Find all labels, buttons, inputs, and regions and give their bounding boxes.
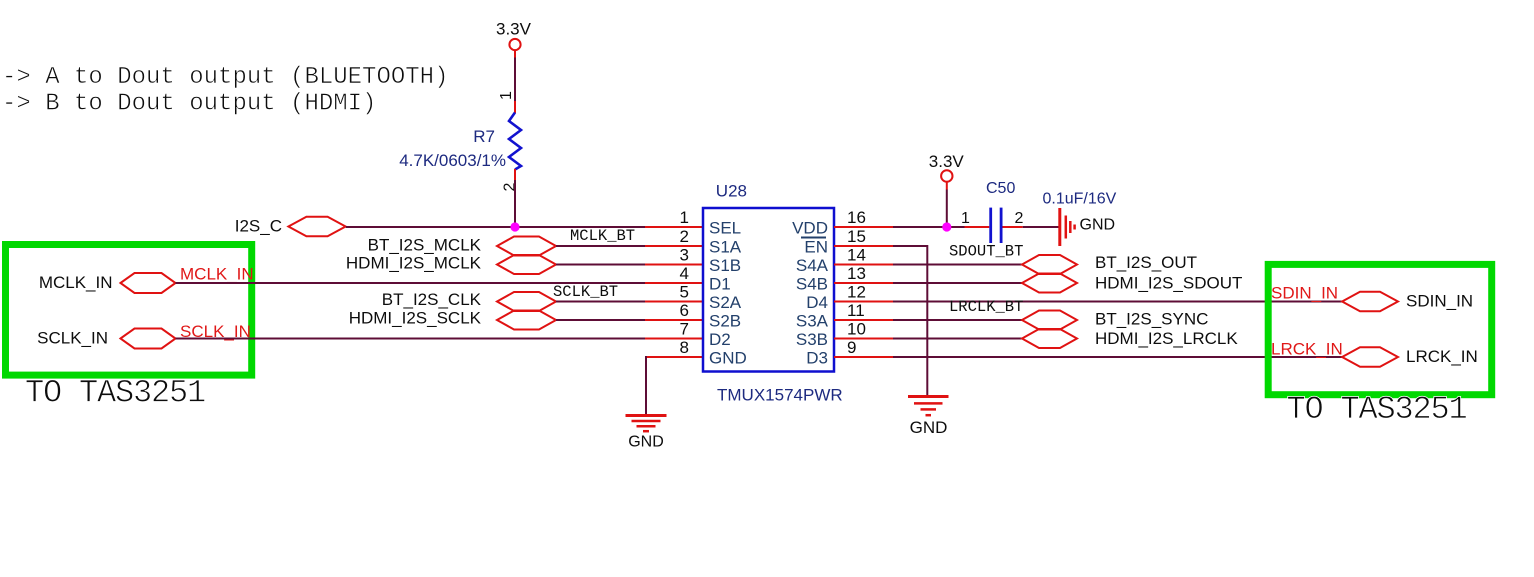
- svg-text:LRCK_IN: LRCK_IN: [1271, 340, 1343, 359]
- wire pin8 to ground: [645, 356, 647, 414]
- svg-text:SDIN_IN: SDIN_IN: [1406, 292, 1473, 311]
- svg-text:-> B to Dout output (HDMI): -> B to Dout output (HDMI): [2, 91, 376, 118]
- green highlight box (left, TO TAS3251): [6, 245, 252, 376]
- svg-text:R7: R7: [473, 127, 495, 146]
- svg-text:BT_I2S_SYNC: BT_I2S_SYNC: [1095, 310, 1208, 329]
- svg-text:2: 2: [680, 227, 689, 246]
- power symbol 3.3V (top, for R7): [496, 20, 532, 51]
- svg-text:GND: GND: [628, 434, 664, 451]
- pin stub U28 pin1: [645, 226, 703, 228]
- junction node at R7/I2S_C: [510, 222, 519, 231]
- svg-text:0.1uF/16V: 0.1uF/16V: [1043, 191, 1117, 208]
- svg-text:HDMI_I2S_SDOUT: HDMI_I2S_SDOUT: [1095, 274, 1242, 293]
- svg-text:SCLK_BT: SCLK_BT: [553, 283, 618, 301]
- wire R7 pin2 to node: [514, 180, 516, 227]
- svg-text:D1: D1: [709, 275, 731, 294]
- svg-text:HDMI_I2S_MCLK: HDMI_I2S_MCLK: [346, 254, 482, 273]
- svg-text:S3B: S3B: [796, 330, 828, 349]
- port HDMI_I2S_MCLK hexagon: [497, 255, 556, 274]
- svg-text:S3A: S3A: [796, 312, 829, 331]
- pin stub U28 pin10: [834, 338, 893, 340]
- wire VDD net: [893, 226, 965, 228]
- svg-text:MCLK_BT: MCLK_BT: [570, 227, 635, 245]
- svg-text:7: 7: [680, 320, 689, 339]
- svg-text:D2: D2: [709, 330, 731, 349]
- svg-text:13: 13: [847, 264, 866, 283]
- port BT_I2S_SYNC hexagon: [1022, 311, 1077, 330]
- svg-text:I2S_C: I2S_C: [235, 217, 282, 236]
- ground symbol (below EN): [908, 397, 949, 438]
- svg-text:11: 11: [847, 301, 865, 320]
- svg-text:16: 16: [847, 208, 866, 227]
- svg-text:3: 3: [680, 246, 689, 265]
- pin stub U28 pin8: [646, 356, 703, 358]
- wire S4A to port: [893, 264, 1022, 266]
- pin stub U28 pin4: [645, 282, 703, 284]
- svg-text:U28: U28: [716, 182, 747, 201]
- svg-text:MCLK_IN: MCLK_IN: [39, 273, 113, 292]
- svg-text:9: 9: [847, 338, 856, 357]
- pin stub U28 pin11: [834, 319, 893, 321]
- svg-text:GND: GND: [910, 418, 948, 437]
- port HDMI_I2S_SCLK hexagon: [497, 311, 556, 330]
- wire EN net: [893, 245, 927, 395]
- svg-text:EN: EN: [804, 238, 828, 257]
- svg-text:SEL: SEL: [709, 219, 741, 238]
- svg-text:LRCK_IN: LRCK_IN: [1406, 347, 1478, 366]
- EN overline: [801, 237, 826, 239]
- svg-text:GND: GND: [1080, 217, 1116, 234]
- pin stub U28 pin14: [834, 264, 893, 266]
- wire D3 to LRCK_IN: [893, 356, 1342, 358]
- pin stub U28 pin6: [645, 319, 703, 321]
- pin stub U28 pin9: [834, 356, 893, 358]
- port HDMI_I2S_LRCLK hexagon: [1022, 329, 1077, 348]
- port BT_I2S_OUT hexagon: [1022, 255, 1077, 274]
- svg-text:1: 1: [498, 91, 515, 100]
- wire HDMI_I2S_SCLK to pin6: [556, 319, 645, 321]
- svg-text:14: 14: [847, 246, 866, 265]
- port BT_I2S_MCLK hexagon: [497, 237, 556, 256]
- svg-text:TO TAS3251: TO TAS3251: [1287, 391, 1467, 428]
- svg-text:D4: D4: [806, 293, 828, 312]
- wire S3A to port: [893, 319, 1022, 321]
- green highlight box (right, TO TAS3251): [1268, 264, 1492, 394]
- svg-text:HDMI_I2S_LRCLK: HDMI_I2S_LRCLK: [1095, 329, 1238, 348]
- svg-text:BT_I2S_OUT: BT_I2S_OUT: [1095, 253, 1197, 272]
- svg-text:3.3V: 3.3V: [929, 152, 965, 171]
- resistor R7: [509, 101, 521, 180]
- pin stub U28 pin16: [834, 226, 893, 228]
- wire S4B to port: [893, 282, 1022, 284]
- svg-text:S1A: S1A: [709, 238, 742, 257]
- svg-text:6: 6: [680, 301, 689, 320]
- port BT_I2S_CLK hexagon: [497, 292, 556, 311]
- ground symbol (right of C50, rotated): [1060, 208, 1115, 246]
- svg-text:1: 1: [680, 208, 689, 227]
- svg-text:10: 10: [847, 320, 866, 339]
- wire BT_I2S_CLK to pin5: [556, 301, 645, 303]
- wire C50 to ground: [1023, 226, 1059, 228]
- wire BT_I2S_MCLK to pin2: [556, 245, 645, 247]
- svg-text:4: 4: [680, 264, 689, 283]
- svg-text:GND: GND: [709, 349, 747, 368]
- power symbol 3.3V (at VDD): [929, 152, 965, 182]
- wire I2S_C to U28 pin1: [346, 226, 645, 228]
- junction node at VDD/3.3V: [942, 222, 951, 231]
- port SDIN_IN hexagon: [1342, 292, 1398, 312]
- svg-text:S4B: S4B: [796, 275, 828, 294]
- wire 3.3V to VDD net: [946, 182, 948, 190]
- svg-text:SCLK_IN: SCLK_IN: [37, 329, 108, 348]
- pin stub U28 pin7: [645, 338, 703, 340]
- svg-text:BT_I2S_CLK: BT_I2S_CLK: [382, 290, 482, 309]
- svg-text:-> A to Dout output (BLUETOOTH: -> A to Dout output (BLUETOOTH): [2, 64, 448, 91]
- svg-text:5: 5: [680, 283, 689, 302]
- capacitor C50: [965, 208, 1023, 243]
- pin stub U28 pin15: [834, 245, 893, 247]
- svg-text:8: 8: [680, 338, 689, 357]
- port I2S_C hexagon: [288, 217, 345, 237]
- svg-text:TMUX1574PWR: TMUX1574PWR: [717, 386, 843, 405]
- op IC U28 body: [703, 208, 834, 372]
- port MCLK_IN hexagon: [121, 273, 176, 293]
- svg-text:D3: D3: [806, 349, 828, 368]
- svg-text:12: 12: [847, 283, 866, 302]
- svg-text:1: 1: [961, 210, 970, 227]
- svg-text:BT_I2S_MCLK: BT_I2S_MCLK: [368, 236, 482, 255]
- ground symbol (below U28 pin8): [626, 416, 667, 451]
- comment text (BLUETOOTH / HDMI notes): [2, 64, 448, 118]
- svg-text:S1B: S1B: [709, 256, 741, 275]
- svg-text:SDOUT_BT: SDOUT_BT: [949, 243, 1023, 261]
- svg-text:SDIN_IN: SDIN_IN: [1271, 284, 1338, 303]
- pin stub U28 pin12: [834, 301, 893, 303]
- wire MCLK_IN to pin4: [176, 282, 646, 284]
- svg-text:C50: C50: [986, 180, 1015, 197]
- wire SCLK_IN to pin7: [176, 338, 646, 340]
- pin stub U28 pin3: [645, 264, 703, 266]
- wire 3.3V to R7 pin1: [514, 50, 516, 57]
- svg-text:2: 2: [1015, 210, 1024, 227]
- port HDMI_I2S_SDOUT hexagon: [1022, 274, 1077, 293]
- svg-text:15: 15: [847, 227, 866, 246]
- svg-text:4.7K/0603/1%: 4.7K/0603/1%: [399, 151, 506, 170]
- svg-text:S2A: S2A: [709, 293, 742, 312]
- port SCLK_IN hexagon: [121, 329, 176, 349]
- svg-text:LRCLK_BT: LRCLK_BT: [949, 298, 1023, 316]
- port LRCK_IN hexagon: [1342, 347, 1398, 367]
- pin stub U28 pin5: [645, 301, 703, 303]
- svg-text:TO TAS3251: TO TAS3251: [25, 375, 205, 412]
- wire D4 to SDIN_IN: [893, 301, 1342, 303]
- wire S3B to port: [893, 338, 1022, 340]
- svg-text:3.3V: 3.3V: [496, 20, 532, 39]
- wire HDMI_I2S_MCLK to pin3: [556, 264, 645, 266]
- svg-text:HDMI_I2S_SCLK: HDMI_I2S_SCLK: [349, 309, 482, 328]
- pin stub U28 pin2: [645, 245, 703, 247]
- pin stub U28 pin13: [834, 282, 893, 284]
- svg-text:S2B: S2B: [709, 312, 741, 331]
- svg-text:VDD: VDD: [792, 219, 828, 238]
- svg-text:S4A: S4A: [796, 256, 829, 275]
- svg-text:MCLK_IN: MCLK_IN: [180, 265, 254, 284]
